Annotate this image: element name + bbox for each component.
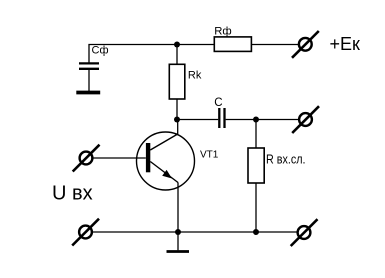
- resistor Rk: [169, 64, 185, 99]
- wire ground stub: [177, 232, 179, 250]
- svg-text:Rф: Rф: [214, 26, 231, 38]
- wire node E to node D: [178, 231, 256, 233]
- wire capacitor C to node C: [226, 119, 256, 121]
- node B junction: [174, 117, 180, 123]
- wire node C down to R вх.сл.: [255, 120, 257, 149]
- svg-text:R вх.сл.: R вх.сл.: [266, 153, 306, 167]
- wire node A to Rk: [176, 45, 178, 65]
- label C: [214, 97, 222, 109]
- terminal bottom-left: [72, 219, 99, 246]
- svg-text:Сф: Сф: [92, 44, 109, 56]
- node D junction: [253, 229, 259, 235]
- svg-text:+Ек: +Ек: [330, 34, 361, 54]
- wire node D to bottom-right terminal: [256, 231, 297, 233]
- svg-text:C: C: [214, 97, 222, 109]
- wire emitter to node E: [177, 183, 179, 233]
- wire node A to Rф left: [177, 44, 214, 46]
- label +Ек: [330, 34, 361, 54]
- capacitor C: [219, 108, 224, 128]
- wire bottom rail left: [92, 231, 178, 233]
- resistor Rф: [214, 37, 251, 52]
- label Rk: [188, 70, 202, 82]
- terminal +Ек: [292, 31, 319, 58]
- wire node B to capacitor C: [177, 119, 218, 121]
- wire R вх.сл. to node D: [255, 183, 257, 232]
- resistor R вх.сл.: [248, 148, 264, 183]
- wire node C to output terminal: [256, 119, 298, 121]
- label R вх.сл.: [266, 153, 306, 167]
- label Rф: [214, 26, 231, 38]
- capacitor Cф: [79, 63, 99, 68]
- wire Rk bottom to node B: [176, 99, 178, 120]
- ground bottom: [167, 250, 190, 253]
- svg-text:VT1: VT1: [200, 150, 219, 161]
- ground under Cф: [76, 91, 100, 95]
- terminal bottom-right: [291, 219, 318, 246]
- wire collector stub to node B: [177, 120, 179, 135]
- wire base lead: [93, 157, 146, 159]
- terminal output top: [292, 106, 319, 133]
- wire Cф bottom lead: [88, 70, 90, 91]
- node A junction: [174, 42, 180, 48]
- label VT1: [200, 150, 219, 161]
- svg-text:U вх: U вх: [52, 183, 93, 205]
- node C junction: [253, 117, 259, 123]
- transistor VT1: [137, 132, 195, 190]
- svg-text:Rk: Rk: [188, 70, 202, 82]
- node E junction: [175, 229, 181, 235]
- wire Rф right to +Ек terminal: [251, 44, 298, 46]
- label Сф: [92, 44, 109, 56]
- label U вх: [52, 183, 93, 205]
- wire top rail left: Cф corner to node A: [89, 45, 177, 64]
- terminal input: [73, 145, 100, 172]
